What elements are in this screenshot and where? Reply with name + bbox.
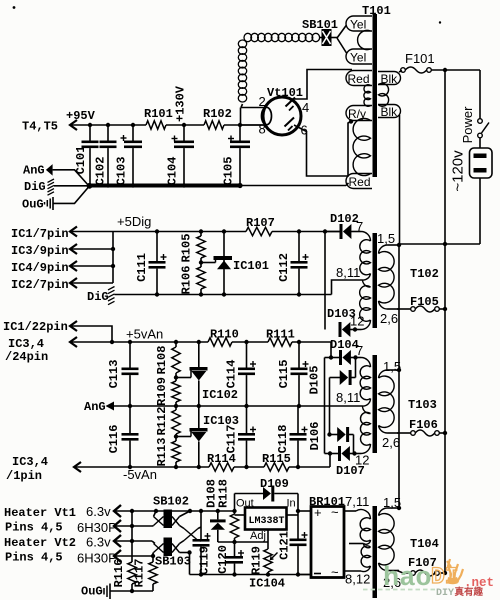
wire BR-	[298, 574, 311, 576]
label 8,11 T103	[336, 390, 360, 405]
junction T103 sec top	[397, 368, 401, 372]
label D106	[308, 422, 322, 451]
label 8,12	[345, 572, 370, 587]
wire R116 drop	[131, 511, 133, 562]
terminal 7 T103	[356, 358, 371, 368]
node +130V / C104 top	[182, 123, 186, 127]
svg-text:F101: F101	[405, 51, 435, 66]
label ~120v	[450, 150, 467, 192]
diode D104	[339, 350, 355, 365]
wire D104 anode	[325, 357, 340, 359]
svg-text:DiG: DiG	[87, 290, 109, 304]
fusible link SB101	[320, 29, 337, 46]
svg-text:Blk: Blk	[381, 72, 399, 86]
junction In/BR+	[296, 509, 300, 513]
node C105 bus	[237, 183, 242, 188]
svg-text:C115: C115	[277, 360, 291, 389]
junction T104 sec top	[397, 506, 401, 510]
svg-text:8: 8	[259, 122, 266, 137]
node C102 bus	[106, 183, 110, 187]
label F106	[409, 418, 438, 432]
label +130V	[174, 85, 188, 122]
junction SB103 out	[187, 550, 191, 554]
node C103 bus	[131, 183, 135, 187]
label pin 12 T103	[355, 453, 369, 468]
winding T103 upper	[360, 366, 370, 400]
label Out	[236, 498, 254, 510]
svg-text:IC3,4: IC3,4	[12, 455, 48, 469]
svg-text:C119: C119	[198, 546, 212, 575]
wire heater 4	[114, 555, 152, 557]
svg-text:D106: D106	[308, 422, 322, 451]
svg-text:6.3v: 6.3v	[86, 535, 111, 550]
diode D102	[325, 224, 361, 239]
wire F106 out	[439, 432, 445, 434]
label pin 7 T102	[356, 219, 363, 234]
junction 22pin/24pin	[110, 340, 114, 344]
label DiG (rail)	[87, 290, 109, 304]
resistor R102	[203, 107, 232, 129]
svg-text:6H30P: 6H30P	[77, 551, 117, 566]
svg-text:IC1/7pin: IC1/7pin	[11, 227, 69, 241]
wire R117 drop	[152, 556, 154, 562]
wire F105 out	[439, 308, 445, 310]
svg-text:C101: C101	[74, 146, 88, 175]
label T103	[408, 398, 437, 412]
svg-text:SB103: SB103	[155, 555, 191, 569]
node IC102 top	[197, 340, 201, 344]
arrow IC3,4/24pin	[70, 337, 112, 347]
wire mains down to switch	[479, 70, 481, 119]
label D107	[336, 464, 365, 478]
capacitor C105	[222, 125, 251, 186]
wire SB102 to w1	[180, 511, 191, 517]
svg-text:D105: D105	[308, 366, 322, 395]
wire adj feedback	[218, 541, 268, 543]
junction mains vertical	[443, 68, 447, 72]
label Heater Vt2	[4, 536, 76, 550]
node C117 bottom	[244, 465, 248, 469]
fuse F101	[401, 67, 432, 73]
resistor R115	[262, 452, 291, 471]
svg-text:T104: T104	[410, 537, 439, 551]
node C113 bottom	[128, 404, 132, 408]
label +5vAn	[126, 327, 163, 342]
node IC101 top	[222, 229, 226, 233]
winding Yel	[358, 30, 371, 49]
wire BR~ bottom	[344, 570, 361, 572]
svg-text:AnG: AnG	[23, 164, 45, 178]
resistor R109	[155, 377, 180, 406]
wire pin8 stub	[240, 124, 266, 126]
wire AnG rail	[114, 405, 363, 407]
svg-text:R117: R117	[133, 559, 147, 588]
svg-text:R113: R113	[155, 438, 169, 467]
label 6.3v (Vt1)	[86, 504, 111, 519]
tube anode marks	[285, 98, 296, 131]
svg-text:C104: C104	[166, 157, 180, 186]
wire -5vAn mid	[234, 466, 264, 468]
wire to F106	[397, 432, 411, 434]
node C115 top	[297, 340, 301, 344]
svg-text:8,11: 8,11	[336, 390, 360, 405]
svg-text:7: 7	[356, 343, 363, 358]
svg-text:-5vAn: -5vAn	[123, 467, 157, 482]
wire neutral horizontal	[399, 243, 480, 245]
svg-text:Yel: Yel	[350, 51, 366, 65]
wire F107 out	[439, 572, 445, 574]
label 2,6 T102	[380, 311, 398, 326]
fusible link SB103	[152, 538, 180, 557]
diode D109	[235, 486, 299, 502]
terminal T104 sec bottom	[379, 563, 400, 571]
wire DiG rail	[115, 294, 332, 296]
wire gnd rail heater	[190, 574, 312, 576]
label T102	[410, 267, 439, 281]
resistor R105	[180, 232, 206, 263]
wire switch to plug	[479, 138, 481, 148]
svg-text:Red: Red	[348, 72, 370, 86]
svg-text:OuG: OuG	[81, 585, 103, 599]
junction R118 bottom	[232, 540, 236, 544]
tube Vt101 envelope	[263, 97, 301, 135]
wire pin collector vertical	[112, 232, 114, 284]
node C112 bottom	[297, 292, 301, 296]
wire heater 3	[114, 540, 152, 542]
terminal R/y tap	[346, 106, 372, 122]
ground DiG hatched (rail)	[108, 287, 115, 305]
svg-text:C121: C121	[278, 531, 292, 560]
arrow IC3/9pin	[70, 244, 113, 254]
wire +5vAn rail	[112, 341, 331, 343]
terminal T103 sec top	[379, 370, 400, 378]
svg-text:C112: C112	[277, 253, 291, 282]
wire DiG to bus	[54, 185, 89, 187]
junction C120 gnd	[232, 572, 236, 576]
junction w4-R117	[151, 554, 155, 558]
label OuG (top)	[22, 198, 44, 212]
wire Adj	[267, 530, 269, 543]
junction T102 sec top	[397, 243, 401, 247]
svg-text:+5vAn: +5vAn	[126, 327, 163, 342]
diode D106	[330, 427, 354, 442]
svg-text:Yel: Yel	[350, 18, 366, 32]
label IC102	[202, 388, 238, 402]
winding T104 lower	[361, 546, 370, 567]
label AnG (top)	[23, 164, 45, 178]
core T101	[373, 14, 378, 177]
svg-text:C113: C113	[107, 360, 121, 389]
svg-text:D104: D104	[330, 338, 359, 352]
svg-text:IC102: IC102	[202, 388, 238, 402]
winding T101 primary lower	[353, 118, 370, 175]
wire plug to neutral	[479, 178, 481, 244]
label R118	[217, 479, 231, 508]
node R113 bottom	[174, 465, 178, 469]
terminal tap T102	[363, 274, 371, 288]
label Pins 4,5 (Vt2)	[5, 551, 63, 565]
svg-text:Adj: Adj	[250, 530, 266, 542]
svg-text:C118: C118	[276, 425, 290, 454]
node C101 top	[88, 123, 92, 127]
junction D103 cathode	[353, 327, 357, 331]
fusible link SB102	[153, 509, 180, 528]
resistor R118	[230, 514, 238, 542]
node C116 bottom	[128, 465, 132, 469]
junction C121 gnd	[296, 572, 300, 576]
resistor R101	[144, 107, 173, 129]
label D105	[308, 366, 322, 395]
wire OuG bus	[110, 590, 153, 592]
pin 4	[302, 100, 309, 115]
terminal 7 T102	[361, 232, 371, 242]
wire choke elbow	[241, 104, 265, 108]
svg-text:DIY: DIY	[436, 588, 454, 599]
capacitor C121	[278, 531, 308, 574]
svg-text:6.3v: 6.3v	[86, 504, 111, 519]
svg-text:R118: R118	[217, 479, 231, 508]
junction neutral x445	[443, 242, 447, 246]
capacitor C103	[115, 125, 143, 186]
label D102	[330, 212, 359, 226]
node C103 top	[131, 123, 135, 127]
svg-text:D102: D102	[330, 212, 359, 226]
svg-text:2: 2	[259, 94, 266, 109]
junction F107	[443, 571, 447, 575]
wire fuse to corner	[431, 69, 480, 71]
speck	[13, 6, 16, 9]
arrow IC4/9pin	[70, 261, 113, 271]
wire SB103 lower right	[180, 552, 190, 554]
switch Power	[478, 119, 489, 138]
arrow to T4,T5	[70, 120, 77, 130]
svg-text:R107: R107	[246, 216, 275, 230]
junction w3-R116	[130, 539, 134, 543]
core T103	[373, 355, 378, 453]
capacitor C115	[277, 342, 309, 406]
terminal 8,12 T104	[361, 566, 371, 572]
junction pins	[111, 247, 115, 268]
label IC104	[249, 577, 285, 591]
node C114 top	[244, 340, 248, 344]
pin 8	[259, 122, 266, 137]
wire BR+	[298, 510, 311, 512]
label D103	[327, 307, 356, 321]
wire pin4 to Red	[290, 70, 352, 100]
label SB103	[155, 555, 191, 569]
label AnG (mid)	[84, 400, 106, 414]
svg-text:7,11: 7,11	[345, 494, 369, 509]
junction 7 T103	[353, 355, 357, 359]
wire +5Dig rail	[113, 231, 340, 233]
svg-text:C105: C105	[222, 157, 236, 186]
svg-text:2,6: 2,6	[380, 311, 398, 326]
label 8,11 T102	[336, 265, 360, 280]
arrow IC1/22pin	[70, 321, 112, 342]
wire heater 2	[114, 525, 153, 527]
terminal T103 sec bottom	[379, 426, 400, 434]
label Adj	[250, 530, 266, 542]
label IC3,4	[8, 337, 44, 351]
wire BR~ top	[344, 510, 356, 512]
terminal Red lower	[346, 174, 372, 190]
label Power	[460, 106, 475, 144]
node C112 top	[297, 229, 301, 233]
svg-text:IC1/22pin: IC1/22pin	[3, 320, 68, 334]
svg-text:~: ~	[331, 565, 339, 580]
arrow IC2/7pin	[70, 278, 113, 288]
label D109	[260, 477, 289, 491]
svg-text:T102: T102	[410, 267, 439, 281]
wire fork to Yel windings	[337, 25, 347, 53]
winding T101 secondary	[379, 83, 399, 119]
svg-text:+95V: +95V	[66, 109, 96, 123]
wire Blk to fuse	[399, 71, 402, 73]
plug ~120v	[470, 148, 493, 178]
capacitor C104	[166, 125, 195, 186]
capacitor C101	[74, 125, 99, 186]
label 1,5 T102	[377, 231, 395, 246]
svg-text:AnG: AnG	[84, 400, 106, 414]
svg-text:2,6: 2,6	[382, 435, 400, 450]
bridge BR101	[311, 505, 344, 580]
diode D105	[330, 370, 356, 385]
junction divider An+	[174, 375, 178, 379]
svg-text:R116: R116	[112, 559, 126, 588]
svg-text:R108: R108	[155, 346, 169, 375]
capacitor C114	[225, 342, 257, 406]
shunt regulator IC103	[176, 406, 208, 467]
junction D106 anode	[327, 432, 331, 436]
label 6H30P (Vt2)	[77, 551, 117, 566]
label OuG (bottom)	[81, 585, 103, 599]
svg-text:Heater Vt1: Heater Vt1	[4, 506, 76, 520]
svg-text:C114: C114	[225, 360, 239, 389]
junction +5vAn stub	[329, 355, 333, 359]
node D103 branch	[323, 229, 327, 233]
label T104	[410, 537, 439, 551]
wire HV vertical x445	[444, 70, 446, 573]
node C113 top	[128, 340, 132, 344]
svg-text:R105: R105	[180, 234, 194, 263]
twisted wire vertical	[238, 40, 246, 102]
junction C119 top	[199, 509, 203, 513]
junction w1-R116	[130, 509, 134, 513]
arrow IC3,4/1pin	[74, 462, 209, 472]
label -5vAn	[123, 467, 157, 482]
terminal T102 sec bottom	[379, 301, 400, 309]
svg-text:C111: C111	[135, 253, 149, 282]
svg-text:IC2/7pin: IC2/7pin	[11, 278, 69, 292]
label /24pin	[5, 350, 48, 364]
label 1,5 T103	[383, 359, 401, 374]
wire inner vertical	[329, 378, 331, 435]
junction F105	[443, 307, 447, 311]
wire -5vAn end	[289, 454, 330, 468]
svg-text:F106: F106	[409, 418, 438, 432]
label F105	[410, 295, 439, 309]
fuse F105	[411, 306, 440, 312]
label D108	[205, 479, 219, 508]
label SB102	[153, 495, 189, 509]
label SB101	[302, 18, 338, 32]
terminal mid T104	[349, 540, 371, 548]
svg-text:T103: T103	[408, 398, 437, 412]
label IC1/7pin	[11, 227, 69, 241]
ground OuG earth (top)	[45, 197, 54, 210]
junction Out	[232, 509, 236, 513]
speck 2	[439, 21, 441, 23]
label +95V	[66, 109, 96, 123]
label +5Dig	[117, 214, 151, 229]
svg-text:+: +	[314, 505, 322, 520]
capacitor C113	[107, 342, 139, 406]
terminal 12 T102	[361, 320, 371, 330]
shunt regulator IC102	[176, 342, 208, 406]
svg-text:R109: R109	[155, 377, 169, 406]
svg-text:~120v: ~120v	[450, 150, 467, 192]
label 2,6 T103	[382, 435, 400, 450]
winding T102 secondary	[379, 252, 395, 303]
node C111 bottom	[155, 292, 159, 296]
twisted wire horizontal	[244, 33, 320, 41]
wire to F107	[397, 571, 411, 574]
label IC2/7pin	[11, 278, 69, 292]
svg-text:LM338T: LM338T	[249, 516, 285, 527]
label Heater Vt1	[4, 506, 76, 520]
resistor R117	[133, 559, 158, 591]
node C118 bottom	[296, 465, 300, 469]
junction R/y tap	[349, 119, 353, 123]
svg-text:C102: C102	[94, 157, 108, 186]
terminal 12 T103	[361, 444, 371, 454]
arrow heater w2	[114, 520, 121, 532]
wire X stub	[198, 540, 201, 543]
wire tap jog	[332, 280, 363, 295]
fuse F107	[411, 570, 440, 576]
shunt regulator IC101	[201, 232, 232, 295]
junction R116 gnd	[130, 589, 134, 593]
wire bus to T101 red	[240, 183, 349, 186]
wire +95V rail	[70, 124, 263, 126]
label IC3,4 (1pin)	[12, 455, 48, 469]
svg-text:1,5: 1,5	[377, 231, 395, 246]
svg-text:8,11: 8,11	[336, 265, 360, 280]
resistor R106	[180, 263, 206, 295]
capacitor C111	[135, 232, 167, 295]
junction divider	[199, 260, 203, 264]
resistor R114	[207, 452, 236, 471]
winding T103 lower	[360, 412, 370, 445]
junction w2-R116	[130, 524, 134, 528]
capacitor C120	[216, 542, 244, 575]
label In	[287, 498, 296, 510]
terminal T102 sec top	[379, 245, 400, 254]
svg-text:T4,T5: T4,T5	[22, 120, 58, 134]
svg-text:6H30P: 6H30P	[77, 520, 117, 535]
diode D108	[210, 511, 226, 542]
label F101	[405, 51, 435, 66]
node C105 top	[238, 123, 242, 127]
wire D103 vertical	[324, 232, 326, 330]
junction F106	[443, 431, 447, 435]
arrow AnG mid solid	[106, 402, 115, 411]
svg-text:Power: Power	[460, 106, 475, 144]
node R106 bottom	[199, 292, 203, 296]
winding T104 secondary	[379, 514, 395, 565]
resistor R113	[155, 437, 180, 468]
label T4,T5	[22, 120, 58, 134]
